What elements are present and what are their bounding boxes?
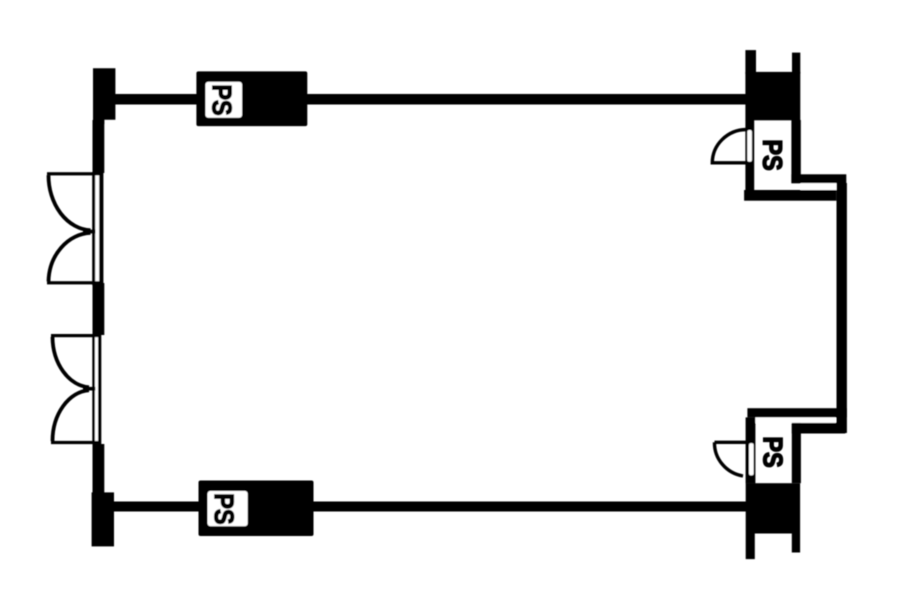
node PS text top-right shaft bbox=[763, 141, 782, 170]
wire bottom-right outer jog wall bbox=[747, 408, 847, 417]
node PS label plate top bbox=[205, 82, 242, 118]
node bottom-left wall cap bbox=[92, 492, 114, 546]
node PS text bottom-right shaft bbox=[763, 438, 782, 467]
component double door upper-left: top swing arc bbox=[48, 175, 90, 230]
wire bottom-right shaft inner left wall bbox=[792, 423, 801, 483]
node top-left wall cap bbox=[93, 68, 115, 124]
wire right outer wall bbox=[837, 183, 847, 433]
node PS text bottom box bbox=[215, 495, 234, 524]
component double door lower-left: frame bbox=[92, 334, 101, 444]
component bottom-right shaft door swing arc bbox=[714, 442, 748, 476]
component double door upper-left: bottom swing arc bbox=[49, 233, 91, 282]
component PS box bottom (shaft on bottom wall) bbox=[199, 481, 314, 537]
node top-right wall sliver gap bbox=[801, 183, 837, 190]
node bottom-right door leaf slot bbox=[749, 443, 754, 475]
component PS box top (shaft on top wall) bbox=[196, 71, 307, 126]
node PS text top box bbox=[212, 86, 231, 115]
wire top-right shaft bottom wall bbox=[744, 190, 836, 201]
wire bottom-right left stub bar bbox=[746, 534, 755, 560]
wire top-right shaft left wall bbox=[745, 120, 754, 191]
node door meet stub upper bbox=[83, 230, 96, 234]
wire bottom wall bbox=[110, 502, 746, 512]
wire top-right left stub bar bbox=[745, 50, 756, 74]
component double door lower-left: top swing arc bbox=[53, 337, 90, 387]
component top-right shaft door swing arc bbox=[712, 130, 746, 163]
wire left wall lower segment bbox=[93, 444, 105, 493]
component double door upper-left: frame bbox=[92, 172, 103, 285]
wire left wall middle segment bbox=[93, 283, 105, 335]
node bottom-right shaft block bbox=[746, 483, 800, 533]
component double door upper-left: top leaf bbox=[47, 172, 93, 175]
component double door lower-left: top leaf bbox=[51, 334, 93, 337]
wire bottom-right shaft left wall bbox=[746, 417, 756, 483]
node top-right shaft block bbox=[745, 72, 800, 120]
wire bottom-right right stub bar bbox=[792, 534, 800, 553]
wire bottom-right inner jog wall bbox=[792, 423, 846, 434]
component double door upper-left: bottom leaf bbox=[47, 281, 93, 284]
component double door lower-left: bottom leaf bbox=[51, 441, 93, 444]
node PS label plate bottom bbox=[208, 491, 248, 526]
wire left wall upper segment bbox=[93, 120, 105, 173]
wire top-right right stub bar bbox=[792, 53, 800, 74]
component double door lower-left: bottom swing arc bbox=[53, 390, 90, 441]
wire top wall bbox=[110, 94, 746, 105]
node door meet stub lower bbox=[83, 387, 95, 391]
node top-right door leaf slot bbox=[747, 130, 752, 162]
wire top-right shaft inner right wall bbox=[791, 120, 800, 183]
node bottom-right wall sliver gap bbox=[755, 417, 835, 422]
wire top-right inner jog wall bbox=[791, 174, 846, 183]
